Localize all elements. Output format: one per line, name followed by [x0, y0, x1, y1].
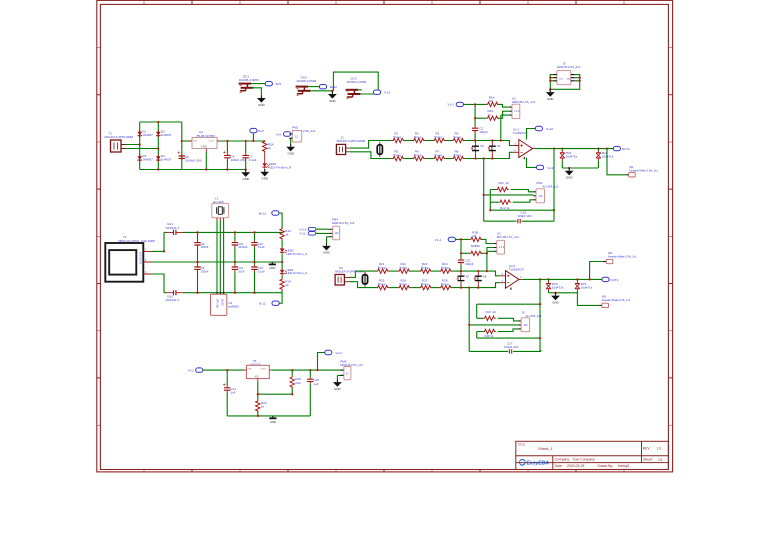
svg-text:10d471k: 10d471k [566, 155, 578, 159]
header W4 [603, 259, 613, 263]
node junction [281, 261, 283, 263]
net flag B+12 [319, 85, 337, 90]
svg-text:MOLEX-6-2PIN-6MM: MOLEX-6-2PIN-6MM [337, 139, 366, 143]
wire [445, 140, 452, 142]
node junction [468, 324, 470, 326]
svg-text:MOLEX-6-2PIN-6MM: MOLEX-6-2PIN-6MM [105, 135, 134, 139]
op-amp U3.2 [500, 271, 522, 290]
svg-text:1uF: 1uF [230, 390, 235, 394]
wire to LED [264, 153, 266, 162]
svg-text:V-12: V-12 [384, 91, 391, 95]
wire to W1 [607, 149, 625, 175]
svg-text:HDR-BLI-TA_1x3: HDR-BLI-TA_1x3 [512, 100, 535, 104]
capacitor C8 [194, 240, 209, 249]
net flag B-12 [259, 293, 282, 306]
svg-text:1N4007: 1N4007 [161, 158, 172, 162]
svg-text:HDR-M-2.54_1x3: HDR-M-2.54_1x3 [332, 221, 355, 225]
wire top row to opamp [452, 271, 500, 276]
capacitor C7 [243, 153, 257, 162]
resistor R28 [440, 279, 452, 290]
dual diode D7 [457, 271, 470, 288]
node junctions bridge [139, 121, 160, 171]
wire [425, 158, 433, 160]
svg-text:1000uF, 50V: 1000uF, 50V [185, 159, 202, 163]
svg-text:1.0: 1.0 [656, 446, 661, 450]
microphone MK1 [377, 142, 382, 157]
wire [281, 240, 283, 247]
crystal Y1 label [213, 196, 224, 204]
svg-text:NP10uF-T: NP10uF-T [166, 298, 180, 302]
resistor R27 [420, 279, 432, 290]
resistor R1A [486, 95, 498, 106]
node junctions loop [539, 303, 541, 339]
node junctions loop [489, 209, 555, 211]
op-amp U2.1 label [513, 127, 528, 135]
header PM5 label [340, 359, 363, 367]
wire flag to PM1 [291, 134, 293, 144]
header J6 label [522, 311, 542, 318]
svg-text:50-AD: 50-AD [221, 299, 224, 306]
node junctions rails [163, 231, 256, 294]
net flag OUT1 [613, 146, 630, 151]
header W1 [625, 173, 635, 177]
resistor R21 [377, 262, 389, 273]
resistor R13 [280, 228, 291, 240]
crystal Y1 [212, 203, 229, 220]
resistor R14 [280, 278, 291, 290]
capacitor C5 [178, 151, 202, 162]
net flag V-12 [373, 90, 390, 95]
svg-text:VOUT: VOUT [260, 368, 267, 370]
svg-text:Header-Male-2.54_1x1: Header-Male-2.54_1x1 [602, 298, 631, 302]
svg-text:HDR-M-2.54_1x2: HDR-M-2.54_1x2 [340, 363, 363, 367]
ground [260, 169, 269, 181]
node junction [483, 194, 485, 196]
capacitor C17 [504, 341, 519, 353]
resistor R9 [560, 149, 578, 168]
diode D2 [156, 130, 172, 138]
ground [333, 379, 342, 391]
diode D4 [156, 154, 172, 162]
sheet border frame [97, 0, 673, 472]
svg-text:B-12: B-12 [259, 302, 266, 306]
op-amp U2.1 [513, 140, 536, 160]
wire P2 split [349, 271, 377, 288]
wire top rail [164, 231, 282, 233]
header U3 label [497, 232, 519, 240]
dc jack DC1 [239, 75, 259, 93]
header U1 label [512, 97, 535, 105]
svg-text:100pF: 100pF [465, 262, 474, 266]
node junctions output [539, 278, 591, 280]
svg-text:10d471k: 10d471k [602, 155, 614, 159]
svg-text:1 2 3: 1 2 3 [499, 247, 505, 249]
svg-text:MIC-BLI-TA_1x1: MIC-BLI-TA_1x1 [497, 235, 519, 239]
svg-text:pcf8591: pcf8591 [228, 305, 239, 309]
wire opamp output [536, 148, 614, 150]
wire adj network [227, 353, 325, 416]
svg-text:Header-Male-2.54_1x1: Header-Male-2.54_1x1 [608, 255, 637, 259]
wire J1 split [350, 141, 392, 159]
svg-text:KainqG: KainqG [618, 464, 630, 468]
wire [410, 287, 419, 289]
node junction [554, 292, 556, 294]
wire left vertical [484, 159, 534, 222]
wire bottom row to opamp [465, 152, 513, 158]
regulator U4 [190, 138, 220, 153]
svg-text:VIN: VIN [193, 141, 197, 143]
node junction [331, 90, 333, 92]
wire J5 left loop [550, 75, 579, 90]
capacitor C9 [194, 265, 209, 274]
resistor R2A [486, 109, 498, 120]
resistor R3 [433, 131, 445, 142]
wire bottom row to opamp [452, 283, 500, 288]
wire [389, 270, 398, 272]
net flag V+5 [276, 132, 291, 137]
svg-text:10d471k: 10d471k [581, 285, 593, 289]
resistor R12 [499, 200, 511, 210]
ground [551, 293, 560, 305]
wire main rail [203, 369, 341, 371]
wire bottom rail [164, 292, 282, 294]
svg-text:B+5: B+5 [276, 82, 282, 86]
svg-text:DC005-2.0MM: DC005-2.0MM [239, 78, 259, 82]
svg-text:V1-2: V1-2 [188, 369, 195, 373]
resistor R2A [263, 140, 274, 152]
net flag V1-2 right [325, 350, 342, 355]
svg-text:LED-TH-5mm_R: LED-TH-5mm_R [269, 165, 292, 169]
svg-text:100pF 2kV: 100pF 2kV [504, 345, 519, 349]
svg-text:V1-1: V1-1 [448, 103, 455, 107]
resistor R5 [392, 149, 404, 160]
wire tube pins [152, 232, 283, 292]
svg-text:R12 1k: R12 1k [500, 206, 510, 210]
led LED1 [262, 162, 292, 170]
resistor R2B [470, 244, 482, 255]
net flag V1-2 left [188, 368, 203, 373]
header W5 label [602, 295, 631, 302]
ground [257, 95, 266, 107]
resistor R22 [398, 262, 410, 273]
node junctions upper [460, 238, 488, 272]
svg-text:Drawn By:: Drawn By: [598, 464, 614, 468]
svg-text:OUT1: OUT1 [622, 147, 630, 151]
wire bridge to regulator [182, 140, 190, 142]
led LED2 [280, 247, 307, 256]
ground flag bottom [269, 416, 276, 424]
wire left vertical [469, 288, 518, 352]
wire DC3 to flag [358, 90, 373, 94]
svg-text:V1-2: V1-2 [335, 351, 342, 355]
svg-text:DC005-2.0MM: DC005-2.0MM [347, 80, 367, 84]
wire DC4 to flag [308, 72, 378, 91]
svg-text:R2B: R2B [471, 244, 477, 248]
wire [404, 140, 412, 142]
wire cap columns [198, 232, 255, 292]
svg-text:REV:: REV: [643, 446, 651, 450]
svg-text:1k: 1k [477, 244, 481, 248]
capacitor C21 [458, 258, 474, 266]
capacitor C4 [223, 151, 246, 162]
wire DC1 to flag [251, 84, 265, 96]
svg-text:D7: D7 [466, 274, 470, 278]
wire [281, 275, 283, 278]
resistor R16 [575, 279, 593, 292]
net flag OUT2 [602, 277, 619, 282]
net flag B+5 [250, 128, 264, 133]
svg-text:1k: 1k [261, 405, 265, 409]
svg-text:VOUT: VOUT [209, 141, 216, 143]
resistor R17 [483, 310, 496, 320]
capacitor C15 [307, 377, 319, 386]
resistor R18 [483, 329, 495, 338]
svg-text:1N4007: 1N4007 [161, 133, 172, 137]
diode D3 [137, 154, 153, 162]
svg-text:R18 1k: R18 1k [485, 334, 494, 338]
resistor R1B [470, 230, 482, 241]
wire [445, 158, 452, 160]
wire resistor bottoms [562, 167, 598, 169]
tube T2 [105, 243, 151, 282]
svg-text:D5: D5 [481, 144, 485, 148]
svg-text:2020-03-03: 2020-03-03 [567, 464, 584, 468]
resistor R25 [377, 279, 389, 290]
ground [565, 168, 574, 180]
ground [286, 144, 295, 156]
resistor R23 [420, 262, 432, 273]
transformer T1 [111, 140, 127, 152]
led LED3 [280, 268, 307, 275]
wire regulator output rail [220, 134, 265, 170]
wire bridge frame [140, 122, 246, 170]
capacitor C16 [518, 211, 533, 224]
ground [546, 89, 555, 101]
svg-text:TITLE:: TITLE: [518, 442, 526, 446]
svg-text:0.1uF: 0.1uF [258, 270, 265, 274]
header J6 [519, 318, 530, 332]
svg-text:0.1uF: 0.1uF [249, 158, 257, 162]
diode D1 [137, 130, 153, 138]
resistor R4 [452, 131, 464, 142]
wire to W5 [577, 293, 598, 306]
node junctions upper [474, 103, 502, 141]
wire top row to opamp [465, 141, 513, 146]
wire [410, 270, 419, 272]
dc jack DC3 [346, 76, 367, 98]
wire inner loop [490, 190, 554, 211]
svg-text:1N4007: 1N4007 [142, 133, 153, 137]
svg-text:D8: D8 [483, 274, 487, 278]
svg-text:NP10uF-T: NP10uF-T [166, 226, 180, 230]
dual diode D8 [474, 271, 487, 288]
wire crystal to U2 [217, 221, 224, 295]
ground [328, 91, 337, 103]
svg-text:240: 240 [295, 381, 300, 385]
transformer T1 label [105, 132, 134, 140]
svg-text:J6: J6 [522, 311, 525, 315]
svg-text:10d471k: 10d471k [552, 285, 564, 289]
wire [404, 158, 412, 160]
wire [432, 287, 440, 289]
svg-text:1k: 1k [506, 181, 510, 185]
resistor R20 [256, 400, 267, 412]
resistor R19 [290, 376, 301, 388]
node junction adj [257, 393, 259, 395]
svg-text:DC005-2.0MM: DC005-2.0MM [297, 79, 317, 83]
svg-text:1000pF: 1000pF [238, 245, 248, 249]
wire [389, 287, 398, 289]
node junctions rows [460, 270, 480, 289]
dc jack DC4 [296, 76, 317, 96]
node junction [568, 167, 570, 169]
capacitor C13 [251, 265, 265, 274]
svg-text:ADJ: ADJ [255, 375, 260, 378]
connector P2 [335, 275, 349, 286]
title block [516, 441, 669, 469]
resistor R7 [433, 149, 445, 160]
svg-text:TL082ACP: TL082ACP [509, 267, 524, 271]
svg-text:OUT2: OUT2 [610, 278, 618, 282]
net flag B+5 [265, 82, 281, 87]
regulator U5 label [250, 359, 261, 367]
svg-text:1N4007: 1N4007 [142, 158, 153, 162]
svg-text:V-12: V-12 [300, 232, 306, 236]
resistor R11 [496, 181, 509, 192]
svg-text:100pF: 100pF [479, 130, 488, 134]
resistor R26 [398, 279, 410, 290]
header W4 label [608, 251, 637, 258]
wire bottom loop with cap [484, 149, 554, 222]
svg-text:B+5: B+5 [258, 129, 264, 133]
capacitor C12 [251, 240, 265, 249]
wire to W4 [590, 262, 603, 280]
svg-text:D6: D6 [497, 144, 501, 148]
svg-text:Header-Male-2.54_1x1: Header-Male-2.54_1x1 [629, 168, 658, 172]
svg-text:1k: 1k [493, 310, 497, 314]
ground [241, 170, 250, 182]
svg-text:V+12: V+12 [546, 127, 553, 131]
header PM1 label [292, 125, 316, 133]
node junction [181, 140, 183, 142]
capacitor C10 [232, 240, 248, 249]
svg-text:1uF: 1uF [314, 382, 319, 386]
net flag V1-2 [435, 237, 456, 242]
svg-text:B+12: B+12 [259, 211, 266, 215]
svg-text:ALI-254_1x3: ALI-254_1x3 [543, 185, 559, 189]
node junctions bottom [257, 393, 294, 417]
svg-text:IN-12BY7A: IN-12BY7A [139, 252, 142, 264]
net flag V-12 [300, 232, 316, 236]
svg-text:EasyEDA: EasyEDA [527, 460, 550, 466]
capacitor C3 [472, 126, 488, 134]
ic U2 label [228, 301, 239, 309]
wire [432, 270, 440, 272]
svg-text:ALI-254_1x3: ALI-254_1x3 [526, 314, 542, 318]
node junctions rows [474, 139, 493, 159]
connector P2 label [335, 266, 364, 273]
wire opamp power [527, 129, 537, 168]
net flag V-12 [537, 165, 554, 170]
wire opamp output [522, 278, 602, 280]
tube T2 label [118, 235, 155, 243]
resistor R10 [596, 149, 614, 168]
node junctions output rail [226, 140, 254, 171]
net flag V1-1 [448, 102, 464, 106]
header PM2 [534, 189, 545, 203]
svg-text:100nF: 100nF [201, 245, 209, 249]
op-amp U3.2 label [509, 264, 524, 272]
net flag B+12 [259, 211, 282, 228]
wire inner loop [477, 279, 540, 351]
header PM5 [337, 367, 351, 380]
svg-text:1/1: 1/1 [658, 458, 663, 462]
header PM4 label [332, 217, 355, 225]
wire T1 to bridge [126, 145, 158, 149]
node junctions main rail [226, 369, 319, 371]
ground [322, 243, 331, 255]
wire regulator ground [205, 152, 207, 170]
capacitor CH2 [166, 290, 184, 302]
connector J1 [336, 144, 350, 154]
svg-text:MPU-60: MPU-60 [216, 299, 219, 308]
resistor R1 [392, 131, 404, 142]
node junctions output [553, 147, 608, 149]
svg-text:LED-TH-5mm_G: LED-TH-5mm_G [286, 252, 307, 256]
svg-text:LED-TH-5mm_G: LED-TH-5mm_G [286, 271, 307, 275]
wire [425, 140, 433, 142]
wire upper branch [455, 239, 494, 271]
resistor R6 [413, 149, 425, 160]
header J5 body [553, 70, 575, 84]
svg-text:V1-2: V1-2 [435, 238, 442, 242]
svg-text:1k: 1k [285, 283, 289, 287]
wire [281, 254, 283, 269]
svg-text:TL082ACP: TL082ACP [513, 131, 528, 135]
svg-text:GND: GND [201, 144, 207, 148]
svg-text:Date:: Date: [555, 464, 563, 468]
node junction [205, 168, 207, 170]
microphone MK2 [362, 272, 367, 287]
header U1 [510, 104, 520, 118]
svg-text:Company:: Company: [555, 458, 571, 462]
header PM2 label [537, 181, 559, 188]
svg-text:10uF: 10uF [238, 270, 245, 274]
wire [281, 290, 283, 292]
wire flags to PM4 [316, 229, 329, 243]
capacitor C11 [232, 265, 245, 274]
regulator U5 [244, 365, 272, 381]
svg-text:V+5: V+5 [276, 133, 282, 137]
capacitor C14 [223, 384, 236, 395]
node junctions [549, 77, 581, 91]
svg-text:1 2 3: 1 2 3 [514, 111, 520, 113]
svg-text:R11: R11 [499, 181, 505, 185]
resistor R2 [413, 131, 425, 142]
header PM1 [289, 130, 301, 142]
svg-text:V-12: V-12 [547, 166, 554, 170]
wire bottom loop with cap [469, 350, 541, 351]
svg-text:Sheet:: Sheet: [643, 458, 653, 462]
regulator U4 label [196, 130, 215, 138]
svg-text:1k: 1k [285, 232, 289, 236]
svg-text:0.1uF: 0.1uF [258, 245, 265, 249]
svg-text:R17: R17 [486, 310, 492, 314]
wire upper branch [463, 104, 509, 140]
net flag V+12 [535, 126, 553, 131]
ground flag mid rail [269, 262, 276, 270]
svg-text:HDR-M-2.54_2x3: HDR-M-2.54_2x3 [557, 65, 581, 69]
